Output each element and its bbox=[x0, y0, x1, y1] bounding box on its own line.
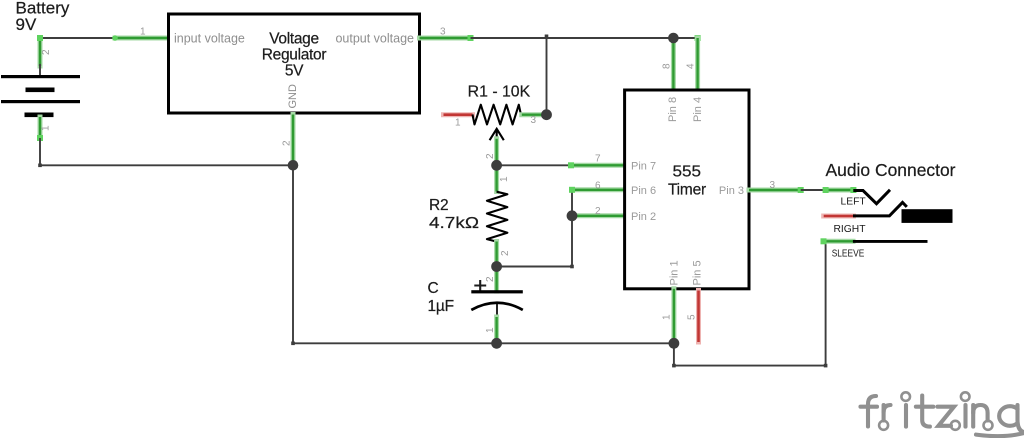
svg-text:555: 555 bbox=[673, 164, 702, 181]
wire battery pin2 to node (dark segment) bbox=[40, 37, 115, 39]
wire node to pin7 (dark) bbox=[497, 164, 571, 166]
svg-text:Pin 4: Pin 4 bbox=[692, 97, 704, 122]
audio connector right contact bbox=[853, 202, 907, 216]
svg-text:8: 8 bbox=[662, 63, 673, 69]
capacitor plus sign bbox=[474, 280, 486, 291]
svg-text:3: 3 bbox=[770, 180, 776, 191]
wire sleeve riser (dark) bbox=[825, 243, 827, 366]
svg-text:R1 - 10K: R1 - 10K bbox=[468, 84, 531, 101]
voltage regulator U2 box bbox=[169, 14, 420, 113]
battery pin lead dark bbox=[39, 64, 41, 76]
audio connector plug body bbox=[902, 209, 953, 223]
node 555 top junction bbox=[668, 33, 679, 44]
svg-text:LEFT: LEFT bbox=[841, 197, 867, 208]
svg-text:Pin 5: Pin 5 bbox=[692, 260, 704, 285]
battery B1 plates bbox=[1, 75, 80, 78]
audio connector sleeve wire (green) bbox=[824, 239, 854, 244]
svg-text:Regulator: Regulator bbox=[262, 47, 327, 64]
svg-text:Voltage: Voltage bbox=[269, 31, 319, 48]
wire top to pin4 (dark) bbox=[673, 37, 697, 39]
svg-text:Pin 6: Pin 6 bbox=[631, 185, 656, 197]
svg-text:4: 4 bbox=[686, 63, 697, 69]
node capacitor gnd junction bbox=[491, 338, 502, 349]
regulator GND wire down (green) bbox=[291, 115, 296, 166]
wire pin 7 (green) bbox=[571, 163, 625, 168]
svg-text:7: 7 bbox=[595, 154, 601, 165]
wire to left contact (green) bbox=[826, 188, 854, 193]
svg-text:Pin 1: Pin 1 bbox=[669, 260, 681, 285]
wire pin 1 down (green) bbox=[671, 289, 676, 344]
svg-text:2: 2 bbox=[485, 276, 496, 282]
wire bottom gnd run (dark) bbox=[293, 342, 674, 344]
wire gnd node down (dark) bbox=[673, 343, 675, 365]
node wiper junction bbox=[491, 160, 502, 171]
svg-text:SLEEVE: SLEEVE bbox=[832, 248, 865, 259]
wire pin 5 stub (red) bbox=[696, 291, 701, 343]
svg-text:Pin 3: Pin 3 bbox=[719, 185, 744, 197]
wire down to R1 (dark) bbox=[546, 38, 548, 115]
svg-text:1: 1 bbox=[140, 27, 146, 38]
svg-text:Pin 7: Pin 7 bbox=[631, 160, 656, 172]
svg-text:2: 2 bbox=[485, 153, 496, 159]
svg-text:1: 1 bbox=[455, 118, 461, 129]
audio connector sleeve contact bbox=[853, 240, 928, 243]
wire gnd node down (dark) bbox=[292, 165, 294, 343]
svg-text:2: 2 bbox=[282, 140, 293, 146]
wire pin 2 (green) bbox=[572, 213, 625, 218]
wire capacitor to gnd (green) bbox=[494, 317, 499, 343]
node gnd junction bbox=[288, 160, 299, 171]
svg-text:RIGHT: RIGHT bbox=[834, 224, 867, 235]
node riser junction bbox=[567, 210, 578, 221]
node R1 right junction bbox=[541, 109, 552, 120]
svg-text:Pin 8: Pin 8 bbox=[667, 97, 679, 122]
svg-text:1: 1 bbox=[485, 327, 496, 333]
wire riser up (dark) bbox=[571, 190, 573, 267]
capacitor C top plate bbox=[471, 290, 523, 293]
555 timer U1 box bbox=[625, 90, 749, 289]
svg-text:Pin 2: Pin 2 bbox=[631, 211, 656, 223]
svg-text:2: 2 bbox=[500, 250, 511, 256]
wire node to capacitor (green) bbox=[494, 267, 499, 292]
wire R2 to node (green) bbox=[494, 242, 499, 267]
resistor R1 zigzag bbox=[473, 105, 521, 125]
resistor R2 zigzag bbox=[487, 192, 508, 242]
svg-text:input voltage: input voltage bbox=[174, 32, 245, 46]
wire pin 3 out (green) bbox=[749, 188, 801, 193]
audio connector right wire (red) bbox=[824, 214, 854, 219]
wire pin3 link (dark) bbox=[801, 189, 826, 191]
svg-text:2: 2 bbox=[595, 206, 601, 217]
node pin1 gnd junction bbox=[669, 338, 680, 349]
capacitor stem bbox=[496, 303, 498, 317]
svg-text:4.7kΩ: 4.7kΩ bbox=[429, 215, 479, 232]
node R2 bottom junction bbox=[491, 261, 502, 272]
svg-text:5: 5 bbox=[687, 314, 698, 320]
svg-text:1µF: 1µF bbox=[428, 298, 454, 315]
svg-text:C: C bbox=[428, 280, 439, 297]
wire pin 4 (green) bbox=[695, 38, 700, 90]
svg-text:GND: GND bbox=[287, 84, 299, 109]
wire 1 battery to regulator input (green) bbox=[115, 36, 169, 41]
wire wiper down (green) bbox=[494, 139, 499, 166]
svg-text:6: 6 bbox=[595, 180, 601, 191]
svg-text:R2: R2 bbox=[429, 197, 448, 214]
fritzing logo bbox=[861, 392, 1024, 436]
svg-text:1: 1 bbox=[499, 176, 510, 182]
svg-text:9V: 9V bbox=[16, 15, 37, 34]
svg-text:3: 3 bbox=[531, 115, 537, 126]
wire node to R2 (green) bbox=[494, 165, 499, 191]
wire battery negative to gnd node (dark) bbox=[40, 164, 293, 166]
resistor R1 red lead wire bbox=[444, 112, 473, 117]
svg-text:Audio Connector: Audio Connector bbox=[826, 160, 956, 180]
svg-text:3: 3 bbox=[440, 27, 446, 38]
battery bottom lead wire (green) bbox=[38, 117, 43, 138]
wire node to pins 6/2 riser (dark) bbox=[497, 266, 572, 268]
wire output to 555 top (dark) bbox=[471, 37, 674, 39]
wire R1 to node 3 (green) bbox=[522, 112, 543, 117]
wire pin 6 (green) bbox=[572, 187, 625, 192]
svg-text:1: 1 bbox=[662, 314, 673, 320]
battery top lead wire (green) bbox=[38, 38, 43, 66]
svg-text:5V: 5V bbox=[285, 63, 304, 80]
audio connector left contact bbox=[853, 190, 890, 204]
svg-text:Timer: Timer bbox=[668, 182, 706, 199]
wire 3 regulator output (green) bbox=[420, 36, 471, 41]
wire pin 8 (green) bbox=[671, 38, 676, 90]
svg-text:1: 1 bbox=[41, 125, 52, 131]
wire battery negative down (dark) bbox=[39, 138, 41, 165]
svg-text:2: 2 bbox=[41, 49, 52, 55]
resistor R1 wiper arrow bbox=[490, 129, 504, 140]
wire gnd run to sleeve (dark) bbox=[674, 365, 826, 367]
svg-text:output voltage: output voltage bbox=[335, 32, 414, 46]
capacitor C bottom curved plate bbox=[471, 303, 523, 310]
